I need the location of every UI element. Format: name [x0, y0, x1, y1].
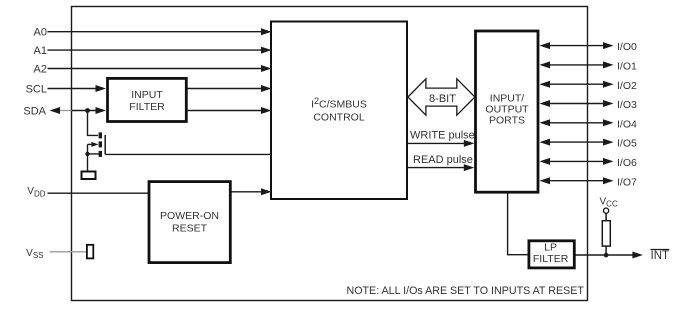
transistor Q1 drain contact [99, 132, 102, 138]
arrowhead I/O6 into ports [540, 158, 551, 165]
arrowhead A0 into control [261, 28, 272, 35]
arrowhead filtered SCL into control [261, 85, 272, 92]
svg-text:8-BIT: 8-BIT [429, 93, 456, 105]
arrowhead I/O0 outgoing [603, 42, 614, 49]
svg-text:FILTER: FILTER [129, 101, 165, 113]
wire I/O2 [548, 83, 604, 85]
svg-text:INT: INT [651, 250, 670, 262]
wire VDD to power-on reset [48, 192, 149, 194]
block LP FILTER [529, 241, 574, 268]
svg-text:I2C/SMBUS: I2C/SMBUS [311, 96, 367, 111]
svg-text:INPUT: INPUT [131, 89, 163, 101]
wire I/O3 [548, 103, 604, 105]
svg-text:I/O2: I/O2 [617, 80, 637, 92]
svg-text:I/O1: I/O1 [617, 61, 637, 73]
terminal box at VSS [87, 245, 93, 259]
wire I/O0 [548, 45, 604, 47]
wire ports to LP filter [508, 192, 528, 255]
svg-text:I/O3: I/O3 [617, 99, 637, 111]
svg-text:RESET: RESET [172, 222, 208, 234]
arrowhead I/O3 outgoing [603, 100, 614, 107]
wire resistor to INT net [605, 246, 607, 255]
svg-text:VSS: VSS [26, 248, 43, 260]
wire filtered SCL to control [188, 88, 263, 90]
wire WRITE pulse [408, 142, 466, 144]
arrowhead Q1 body (n-channel) [91, 142, 98, 147]
junction INT node [604, 253, 609, 258]
arrowhead WRITE pulse into ports [464, 140, 475, 147]
arrowhead I/O5 into ports [540, 139, 551, 146]
overline for INT [651, 249, 670, 251]
arrowhead I/O4 outgoing [603, 119, 614, 126]
svg-text:PORTS: PORTS [489, 114, 525, 126]
svg-text:I/O0: I/O0 [617, 41, 637, 53]
wire I/O6 [548, 160, 604, 162]
terminal circle VCC [604, 208, 609, 213]
junction Q1 source node [85, 152, 89, 156]
wire SCL to input filter [48, 88, 98, 90]
wire A1 to control [48, 49, 263, 51]
chip outline [72, 7, 588, 301]
wire VCC to resistor [605, 213, 607, 221]
wire LP filter to INT [576, 254, 634, 256]
svg-text:VDD: VDD [27, 186, 45, 198]
svg-text:A1: A1 [34, 45, 47, 57]
wire Q1 source lead [88, 153, 99, 155]
arrowhead READ pulse into ports [464, 164, 475, 171]
arrowhead SCL into input filter [96, 85, 107, 92]
wire POR to control [232, 191, 263, 193]
svg-text:SCL: SCL [26, 83, 47, 95]
svg-text:LP: LP [544, 242, 557, 254]
wire READ pulse [408, 167, 466, 169]
arrowhead SDA into input filter [96, 107, 107, 114]
svg-text:SDA: SDA [23, 105, 46, 117]
wire I/O4 [548, 122, 604, 124]
arrowhead I/O3 into ports [540, 100, 551, 107]
svg-text:I/O4: I/O4 [617, 118, 637, 130]
svg-text:I/O5: I/O5 [617, 138, 637, 150]
block POWER-ON RESET [149, 182, 230, 263]
wire Q1 gate to control block [105, 153, 271, 155]
arrowhead I/O2 into ports [540, 81, 551, 88]
arrowhead filtered SDA into control [261, 107, 272, 114]
arrowhead I/O1 outgoing [603, 61, 614, 68]
transistor Q1 source contact [99, 151, 102, 157]
block INPUT FILTER [108, 78, 187, 121]
transistor Q1 gate electrode [104, 135, 106, 154]
svg-text:FILTER: FILTER [533, 253, 569, 265]
wire filtered SDA to control [188, 110, 263, 112]
svg-text:WRITE pulse: WRITE pulse [410, 130, 475, 142]
wire I/O1 [548, 64, 604, 66]
arrowhead A2 into control [261, 65, 272, 72]
wire SDA inner segment [72, 110, 98, 112]
arrowhead I/O0 into ports [540, 42, 551, 49]
transistor Q1 body contact [99, 141, 102, 147]
arrowhead I/O5 outgoing [603, 139, 614, 146]
svg-text:A0: A0 [34, 27, 47, 39]
arrowhead I/O7 outgoing [603, 177, 614, 184]
wire A2 to control [48, 68, 263, 70]
arrowhead I/O1 into ports [540, 61, 551, 68]
svg-text:A2: A2 [34, 63, 47, 75]
arrowhead I/O7 into ports [540, 177, 551, 184]
bus arrow 8-BIT (bidirectional) [408, 79, 475, 115]
arrowhead A1 into control [261, 47, 272, 54]
block INPUT/OUTPUT PORTS [476, 31, 539, 192]
wire I/O7 [548, 180, 604, 182]
wire Q1 body lead [88, 143, 93, 145]
arrowhead I/O2 outgoing [603, 81, 614, 88]
arrowhead SDA outgoing (left) [50, 107, 61, 114]
arrowhead POR into control [261, 188, 272, 195]
arrowhead INT outgoing [632, 252, 643, 259]
wire A0 to control [48, 31, 263, 33]
wire Q1 source down to substrate box [87, 144, 89, 171]
block I2C/SMBUS CONTROL [271, 22, 407, 200]
svg-text:VCC: VCC [600, 196, 618, 208]
arrowhead I/O6 outgoing [603, 158, 614, 165]
svg-text:CONTROL: CONTROL [313, 111, 364, 123]
arrowhead I/O4 into ports [540, 119, 551, 126]
wire SDA node to Q1 drain [88, 111, 99, 136]
wire VSS [50, 251, 87, 253]
wire I/O5 [548, 141, 604, 143]
substrate terminal box below Q1 [82, 172, 96, 180]
svg-text:I/O6: I/O6 [617, 157, 637, 169]
svg-text:I/O7: I/O7 [617, 176, 637, 188]
wire SDA outer segment [60, 110, 72, 112]
svg-text:POWER-ON: POWER-ON [160, 210, 219, 222]
svg-text:NOTE: ALL I/Os ARE SET TO INPU: NOTE: ALL I/Os ARE SET TO INPUTS AT RESE… [347, 285, 585, 297]
junction SDA node [85, 108, 90, 113]
resistor R1 INT pull-up [602, 221, 610, 246]
